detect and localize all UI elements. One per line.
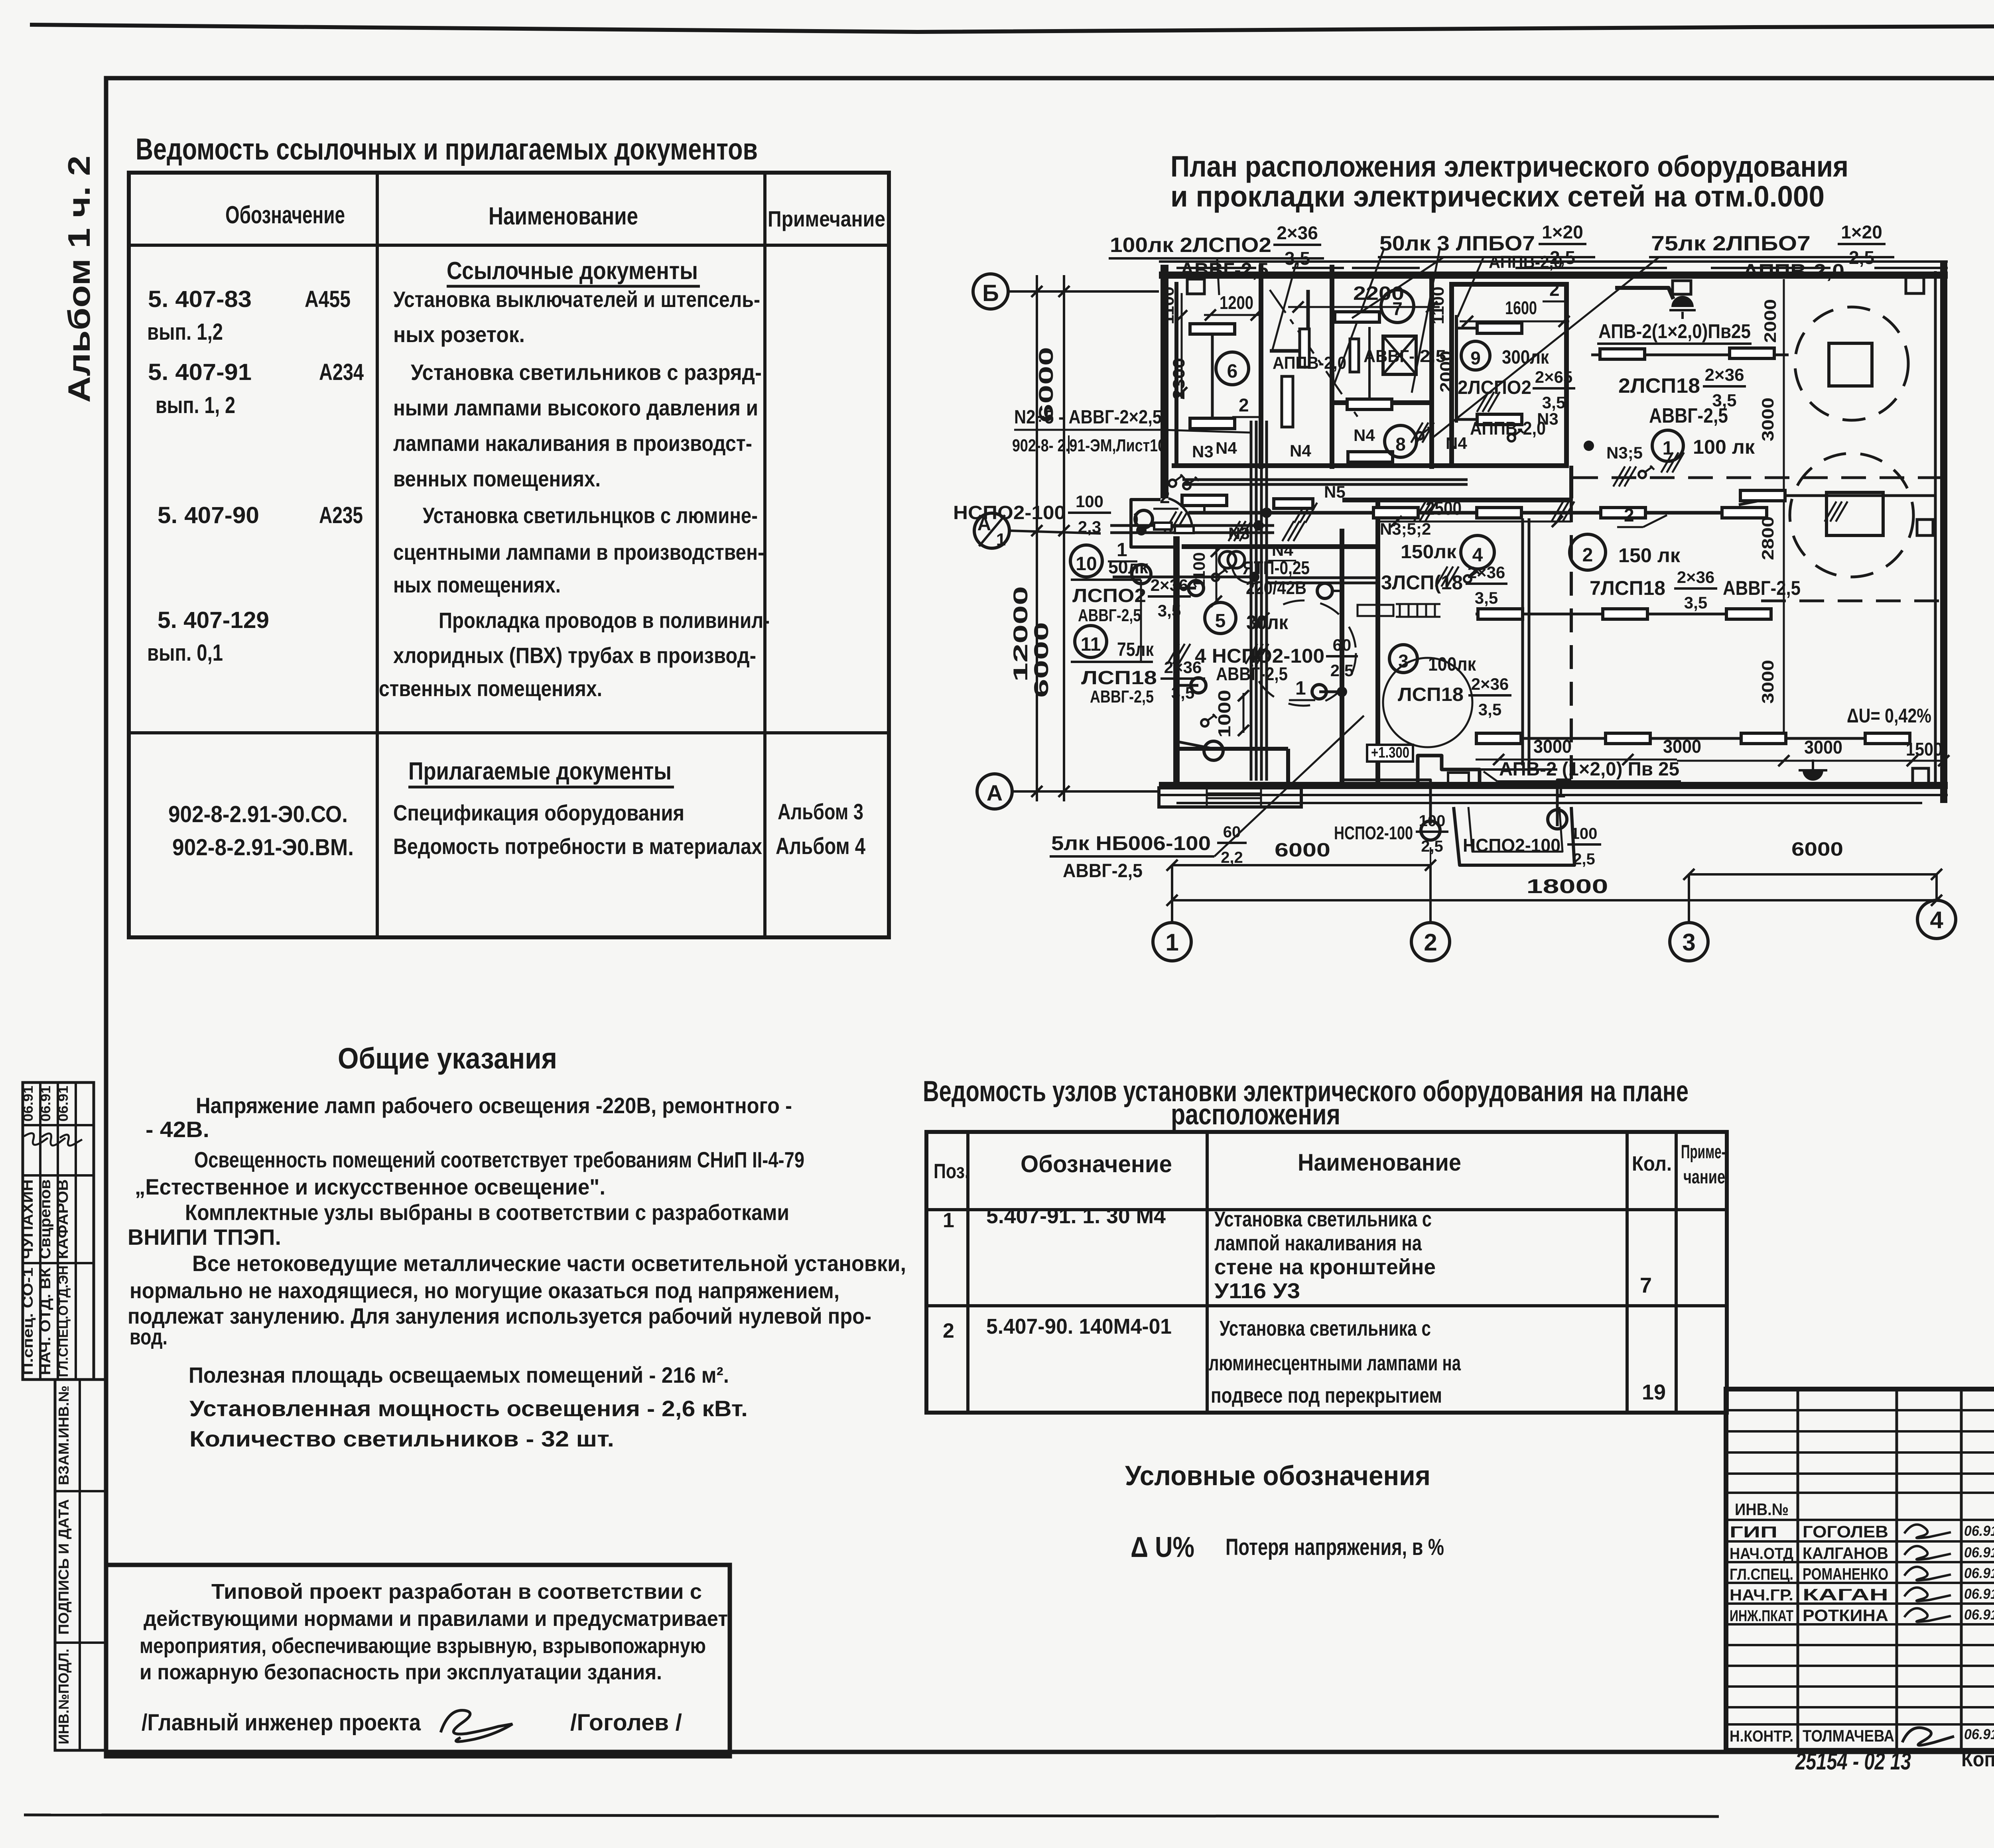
porch at axis 2 (1454, 807, 1574, 865)
svg-text:2,5: 2,5 (1330, 661, 1354, 680)
svg-text:60: 60 (1223, 823, 1241, 841)
svg-text:3000: 3000 (1758, 398, 1777, 441)
svg-text:7: 7 (1640, 1273, 1652, 1297)
svg-text:50лк 3 ЛПБО7: 50лк 3 ЛПБО7 (1379, 232, 1535, 255)
axis circle A1 (974, 513, 1009, 548)
svg-text:лампами накаливания в производ: лампами накаливания в производст- (393, 431, 752, 456)
svg-text:ИНВ.№: ИНВ.№ (1735, 1500, 1789, 1519)
room9 walls (1452, 284, 1566, 466)
room6 dim line vertical (1181, 293, 1183, 399)
building outer wall left (1161, 265, 1168, 498)
svg-text:N3: N3 (1537, 409, 1559, 428)
svg-text:Комплектные узлы выбраны в соо: Комплектные узлы выбраны в соответствии … (185, 1200, 789, 1225)
svg-text:АВВГ-2,5: АВВГ-2,5 (1090, 687, 1154, 707)
svg-text:1100: 1100 (1159, 287, 1177, 325)
svg-text:Установленная мощность освещен: Установленная мощность освещения - 2,6 к… (189, 1396, 748, 1421)
svg-text:2: 2 (1160, 486, 1170, 507)
svg-text:3,5: 3,5 (1684, 593, 1707, 612)
svg-text:вып. 0,1: вып. 0,1 (147, 640, 223, 666)
annex right wall upper (1375, 500, 1380, 785)
svg-text:НАЧ.ОТД: НАЧ.ОТД (1730, 1545, 1793, 1563)
corridor wall y1254 (1342, 498, 1571, 502)
axis line B (1008, 290, 1159, 293)
svg-text:N2÷5 - АВВГ-2×2,5: N2÷5 - АВВГ-2×2,5 (1014, 407, 1162, 428)
svg-text:60: 60 (1333, 636, 1352, 654)
svg-text:2×36: 2×36 (1704, 365, 1744, 385)
entrance mark top right (1671, 296, 1694, 307)
svg-text:нормально не находящиеся, но м: нормально не находящиеся, но могущие ока… (130, 1278, 839, 1303)
svg-text:N4: N4 (1216, 439, 1237, 457)
svg-text:ТОЛМАЧЕВА: ТОЛМАЧЕВА (1803, 1726, 1894, 1745)
vestibule inner walls (1306, 290, 1310, 351)
svg-text:лампой накаливания на: лампой накаливания на (1214, 1231, 1422, 1255)
svg-text:ЛСПО2: ЛСПО2 (1072, 585, 1146, 606)
svg-text:2500: 2500 (1426, 498, 1462, 519)
svg-text:N4: N4 (1290, 441, 1311, 460)
svg-text:N3;5: N3;5 (1606, 443, 1643, 462)
svg-text:902-8- 2.91-ЭМ,Лист10: 902-8- 2.91-ЭМ,Лист10 (1012, 436, 1166, 455)
svg-text:2: 2 (1624, 505, 1634, 525)
standard design statement box (106, 1565, 730, 1756)
svg-text:2,5: 2,5 (1573, 850, 1595, 868)
bottom axis stems (1171, 865, 1173, 923)
svg-text:/Гоголев /: /Гоголев / (570, 1710, 682, 1736)
room9 circle (1461, 341, 1490, 370)
tank 1 square (1829, 343, 1872, 386)
entrance steps band bottom-left (1159, 788, 1301, 807)
svg-text:ных помещениях.: ных помещениях. (393, 572, 561, 597)
svg-text:Альбом 3: Альбом 3 (778, 799, 863, 824)
svg-text:ΔU= 0,42%: ΔU= 0,42% (1847, 705, 1931, 727)
svg-text:ЛСП18: ЛСП18 (1398, 684, 1464, 705)
svg-text:ИНВ.№ПОДЛ.: ИНВ.№ПОДЛ. (55, 1649, 72, 1744)
svg-text:Приме-: Приме- (1681, 1141, 1726, 1163)
small square right of tank2 (1917, 520, 1933, 535)
svg-text:1×20: 1×20 (1841, 222, 1882, 242)
reference documents table grid (129, 173, 889, 937)
svg-text:2: 2 (1582, 545, 1593, 566)
svg-text:2300: 2300 (1169, 358, 1188, 400)
svg-text:3000: 3000 (1804, 737, 1842, 758)
svg-text:ГОГОЛЕВ: ГОГОЛЕВ (1803, 1522, 1888, 1541)
svg-text:АПВ-2 (1×2,0) Пв 25: АПВ-2 (1×2,0) Пв 25 (1499, 759, 1679, 780)
svg-text:18000: 18000 (1527, 875, 1608, 897)
svg-text:902-8-2.91-Э0.СО.: 902-8-2.91-Э0.СО. (168, 801, 348, 827)
junction dots (1584, 441, 1594, 451)
svg-text:ИНЖ.ПКАТ: ИНЖ.ПКАТ (1730, 1607, 1793, 1625)
axis circle A (977, 774, 1012, 809)
svg-text:венных помещениях.: венных помещениях. (393, 466, 601, 491)
svg-text:N4: N4 (1272, 541, 1293, 559)
stair box +1.500 (1358, 605, 1393, 616)
svg-text:1: 1 (943, 1209, 954, 1232)
svg-text:2000: 2000 (1436, 351, 1455, 393)
x-box crossed rectangle (1383, 336, 1416, 374)
axis line A (1012, 790, 1159, 793)
room3 circle (1389, 645, 1417, 673)
room2 circle (1570, 534, 1606, 570)
svg-text:ВЗАМ.ИНВ.№: ВЗАМ.ИНВ.№ (55, 1386, 72, 1485)
svg-text:Кол.: Кол. (1632, 1152, 1672, 1175)
svg-text:сцентными лампами в производст: сцентными лампами в производствен- (393, 539, 764, 565)
svg-text:ЧУПАХИН: ЧУПАХИН (20, 1179, 36, 1259)
svg-text:Установка светильника с: Установка светильника с (1214, 1207, 1432, 1231)
svg-text:Ссылочные документы: Ссылочные документы (447, 257, 698, 285)
svg-text:хлоридных (ПВХ) трубах в произ: хлоридных (ПВХ) трубах в производ- (393, 643, 756, 668)
svg-text:Обозначение: Обозначение (1021, 1151, 1172, 1177)
svg-text:6000: 6000 (1791, 839, 1843, 860)
svg-text:Альбом 4: Альбом 4 (776, 833, 865, 859)
tank circle 1 dashed (1795, 307, 1908, 420)
partition rooms 7-8 (1332, 400, 1432, 405)
svg-text:2: 2 (1239, 395, 1249, 415)
svg-text:вод.: вод. (130, 1324, 167, 1349)
svg-text:Поз.: Поз. (934, 1160, 969, 1183)
svg-text:06.91: 06.91 (1964, 1586, 1994, 1602)
small square room6 corner (1187, 279, 1204, 294)
svg-text:6: 6 (1227, 361, 1238, 382)
dash-dot diagonal (1270, 290, 1358, 417)
svg-text:Прилагаемые документы: Прилагаемые документы (408, 758, 672, 785)
rooms 7-8 right wall (1429, 275, 1434, 469)
svg-text:100лк 2ЛСПО2: 100лк 2ЛСПО2 (1110, 234, 1271, 257)
svg-text:5. 407-129: 5. 407-129 (158, 607, 269, 633)
svg-text:2×36: 2×36 (1468, 563, 1505, 582)
room5 circle (1205, 602, 1236, 634)
dashed line y1507 right (1761, 600, 1944, 602)
svg-text:Б: Б (982, 280, 999, 306)
top right heavy wire (1615, 288, 1673, 299)
svg-text:расположения: расположения (1171, 1098, 1340, 1131)
svg-text:ВНИПИ ТПЭП.: ВНИПИ ТПЭП. (128, 1224, 281, 1250)
svg-text:стене на кронштейне: стене на кронштейне (1214, 1255, 1436, 1279)
window band bottom thin lines (1159, 794, 1948, 796)
svg-text:50лк: 50лк (1108, 557, 1149, 577)
svg-text:АППВ-2,0: АППВ-2,0 (1489, 252, 1562, 272)
svg-text:2: 2 (1549, 279, 1560, 300)
svg-text:КАФАРОВ: КАФАРОВ (55, 1179, 71, 1259)
svg-text:N5: N5 (1324, 482, 1346, 501)
svg-text:4: 4 (1930, 907, 1943, 933)
svg-text:Альбом 1 ч. 2: Альбом 1 ч. 2 (61, 155, 97, 403)
svg-text:3000: 3000 (1758, 660, 1777, 704)
svg-text:АВВГ-2,5: АВВГ-2,5 (1063, 860, 1143, 882)
svg-text:1200: 1200 (1220, 292, 1253, 313)
svg-text:6000: 6000 (1030, 622, 1052, 698)
door arc at left wall (1168, 498, 1192, 531)
lamp row wire C (1476, 613, 1771, 616)
svg-text:12000: 12000 (1009, 586, 1032, 682)
svg-text:Количество светильников - 32 ш: Количество светильников - 32 шт. (189, 1426, 614, 1451)
svg-text:06.91: 06.91 (1964, 1606, 1994, 1623)
lamp row wire B corridor (1188, 511, 1739, 515)
svg-text:А235: А235 (319, 502, 363, 528)
svg-text:10: 10 (1076, 553, 1097, 575)
annex wall x3365 (1340, 529, 1344, 788)
building outer wall top (1159, 272, 1948, 279)
svg-text:Δ U%: Δ U% (1131, 1531, 1194, 1563)
svg-text:НАЧ.ГР.: НАЧ.ГР. (1730, 1586, 1793, 1604)
svg-text:Все нетоковедущие металлически: Все нетоковедущие металлические части ос… (192, 1251, 906, 1276)
svg-text:3,5: 3,5 (1478, 700, 1501, 719)
svg-text:КАЛГАНОВ: КАЛГАНОВ (1803, 1544, 1888, 1563)
svg-text:1: 1 (996, 530, 1006, 549)
room10 circle (1070, 545, 1102, 577)
corridor dashed y1198 (1573, 476, 1944, 479)
svg-text:/Главный инженер проекта: /Главный инженер проекта (142, 1710, 421, 1736)
svg-text:5. 407-83: 5. 407-83 (148, 286, 252, 312)
svg-text:2: 2 (1424, 929, 1437, 956)
corridor wire bundle under rooms (1182, 478, 1468, 481)
svg-text:„Естественное и искусственное: „Естественное и искусственное освещение"… (135, 1174, 605, 1199)
svg-text:ЛСП18: ЛСП18 (1081, 667, 1157, 689)
svg-text:5. 407-90: 5. 407-90 (158, 502, 259, 528)
mark +1.300 (1367, 745, 1413, 762)
leader diagonals from 50lk label (1272, 263, 1296, 351)
svg-text:100: 100 (1419, 812, 1446, 830)
left lamp with stem (1203, 506, 1206, 513)
svg-text:Установка светильника с: Установка светильника с (1220, 1317, 1431, 1340)
svg-text:Потеря напряжения, в %: Потеря напряжения, в % (1226, 1534, 1444, 1560)
svg-text:75лк 2ЛПБО7: 75лк 2ЛПБО7 (1651, 232, 1811, 255)
svg-text:Типовой проект разработан в со: Типовой проект разработан в соответствии… (211, 1580, 702, 1604)
svg-text:25154 - 02 13: 25154 - 02 13 (1795, 1748, 1911, 1775)
lamp row wire A (1591, 354, 1789, 356)
svg-text:Условные обозначения: Условные обозначения (1125, 1460, 1430, 1491)
window band top thin lines (1159, 260, 1948, 263)
room6 circle (1216, 352, 1249, 385)
svg-text:150лк: 150лк (1401, 541, 1457, 563)
svg-text:АВВГ-: АВВГ- (1363, 346, 1415, 366)
corridor wire bundle horizontal upper (1110, 524, 1274, 527)
svg-text:2×36: 2×36 (1677, 568, 1715, 586)
room8 circle (1385, 425, 1417, 457)
svg-text:2,3: 2,3 (1078, 518, 1101, 536)
svg-text:РОМАНЕНКО: РОМАНЕНКО (1803, 1565, 1888, 1583)
svg-text:2,5: 2,5 (1421, 838, 1443, 855)
svg-text:11: 11 (1081, 634, 1101, 655)
tank circle 2 dashed (1790, 453, 1913, 577)
svg-text:Установка светильнцков с люмин: Установка светильнцков с люмине- (423, 503, 758, 528)
svg-text:3,5: 3,5 (1158, 601, 1181, 620)
signature squiggle (441, 1710, 512, 1742)
svg-text:1: 1 (1165, 929, 1178, 956)
svg-text:1×20: 1×20 (1542, 222, 1583, 242)
svg-text:1000: 1000 (1215, 690, 1234, 738)
svg-text:150 лк: 150 лк (1618, 544, 1681, 567)
svg-text:100 лк: 100 лк (1693, 436, 1755, 458)
svg-text:220/42В: 220/42В (1246, 577, 1306, 598)
svg-text:подлежат занулению. Для зануле: подлежат занулению. Для зануления исполь… (128, 1303, 871, 1328)
svg-text:2200: 2200 (1353, 283, 1404, 304)
svg-text:5: 5 (1215, 610, 1226, 632)
title block outer frame (1726, 1389, 1994, 1750)
svg-text:Спецификация оборудования: Спецификация оборудования (393, 800, 684, 825)
svg-text:АПВ-2(1×2,0)Пв25: АПВ-2(1×2,0)Пв25 (1598, 320, 1751, 342)
svg-text:А455: А455 (305, 286, 351, 312)
svg-text:6000: 6000 (1275, 840, 1330, 861)
svg-text:действующими нормами и правила: действующими нормами и правилами и преду… (144, 1607, 728, 1631)
svg-text:2,2: 2,2 (1221, 849, 1243, 866)
svg-text:06.91: 06.91 (38, 1086, 53, 1122)
svg-text:Наименование: Наименование (489, 203, 638, 230)
svg-text:мероприятия, обеспечивающие вз: мероприятия, обеспечивающие взрывную, вз… (140, 1634, 706, 1658)
incandescent lamp circles (1132, 565, 1151, 584)
room7 circle (1381, 290, 1414, 323)
room6 lamp wire (1211, 329, 1214, 423)
left switch-line to riser (1113, 576, 1251, 579)
svg-text:КАГАН: КАГАН (1803, 1585, 1888, 1604)
svg-text:06.91: 06.91 (1964, 1726, 1994, 1742)
svg-text:2: 2 (943, 1319, 954, 1342)
svg-text:вып. 1, 2: вып. 1, 2 (156, 392, 235, 418)
room6 inner left wall (1174, 282, 1178, 466)
hatch marks on wires (1164, 512, 1176, 531)
svg-text:ных розеток.: ных розеток. (393, 322, 525, 347)
svg-text:ными лампами высокого давления: ными лампами высокого давления и (393, 395, 758, 420)
svg-text:П.спец. СО-1: П.спец. СО-1 (20, 1267, 36, 1375)
zone line x4473 thin (1783, 279, 1785, 736)
svg-text:1100: 1100 (1429, 287, 1447, 325)
stamp signatures squiggles (24, 1133, 48, 1145)
svg-text:1600: 1600 (1505, 297, 1537, 318)
svg-text:N4: N4 (1354, 426, 1375, 445)
svg-text:3ЛСП(18: 3ЛСП(18 (1381, 571, 1463, 594)
svg-text:- 42В.: - 42В. (146, 1117, 209, 1142)
room1 circle (1652, 430, 1683, 461)
svg-text:N4: N4 (1446, 434, 1467, 453)
svg-text:ПОДПИСЬ И ДАТА: ПОДПИСЬ И ДАТА (55, 1499, 72, 1635)
svg-text:3,5: 3,5 (1171, 683, 1194, 702)
svg-text:2×36: 2×36 (1277, 222, 1318, 243)
svg-text:Полезная площадь освещаемых по: Полезная площадь освещаемых помещений - … (189, 1362, 729, 1387)
svg-text:вып. 1,2: вып. 1,2 (147, 319, 223, 345)
tank 2 square (1827, 492, 1883, 535)
svg-text:Прокладка проводов в поливинил: Прокладка проводов в поливинил- (439, 608, 770, 633)
svg-text:2800: 2800 (1758, 516, 1777, 560)
svg-text:люминесцентными лампами на: люминесцентными лампами на (1209, 1351, 1461, 1375)
svg-text:+1.300: +1.300 (1371, 744, 1409, 761)
svg-text:2000: 2000 (1761, 299, 1779, 343)
page bottom edge shadow (24, 1815, 1719, 1817)
svg-text:АППВ-2,0: АППВ-2,0 (1743, 260, 1844, 282)
axis circle B (973, 274, 1008, 309)
svg-text:и пожарную безопасность при эк: и пожарную безопасность при эксплуатации… (140, 1660, 662, 1684)
svg-text:ГЛ.СПЕЦ.: ГЛ.СПЕЦ. (1730, 1566, 1793, 1583)
svg-text:100: 100 (1571, 825, 1598, 842)
svg-text:9: 9 (1470, 348, 1481, 368)
svg-text:2ЛСП18: 2ЛСП18 (1618, 374, 1700, 398)
svg-text:1500: 1500 (1906, 739, 1943, 760)
wire across rooms 7-8 (1368, 327, 1371, 404)
svg-text:1100: 1100 (1190, 552, 1208, 588)
svg-text:и прокладки электрических сет: и прокладки электрических сетей на отм.0… (1170, 180, 1825, 213)
main riser bundle vertical (1250, 421, 1253, 781)
svg-text:1: 1 (1295, 678, 1306, 699)
room4 big dashed circle (1251, 600, 1356, 706)
room5 right lamp circle (1317, 583, 1332, 598)
wall lamp left of entrance (1135, 510, 1153, 528)
svg-text:Напряжение ламп рабочего освещ: Напряжение ламп рабочего освещения -220В… (196, 1093, 792, 1118)
svg-text:У116 У3: У116 У3 (1214, 1279, 1300, 1303)
svg-text:2×36: 2×36 (1471, 675, 1509, 693)
svg-text:Ведомость потребности в матери: Ведомость потребности в материалах (393, 834, 762, 859)
svg-text:АВВГ-2,5: АВВГ-2,5 (1180, 259, 1269, 281)
svg-text:чание: чание (1683, 1167, 1725, 1188)
svg-text:3: 3 (1682, 929, 1695, 956)
partition vestibule right (1330, 265, 1334, 469)
bottom dim line 1-2 (1172, 864, 1430, 866)
svg-text:3,5: 3,5 (1542, 393, 1565, 412)
svg-text:2ЛСПО2: 2ЛСПО2 (1458, 377, 1531, 398)
vertical lamp bars vestibule (1282, 376, 1293, 427)
right wall inner line (1934, 271, 1937, 783)
svg-text:3,5: 3,5 (1475, 588, 1498, 607)
nodes table grid (926, 1132, 1727, 1413)
svg-text:ГЛ.СПЕЦ.ОТД.ЭН: ГЛ.СПЕЦ.ОТД.ЭН (56, 1265, 71, 1377)
svg-text:300лк: 300лк (1502, 347, 1549, 368)
room5 wiring (1177, 588, 1198, 685)
svg-text:5лк НБ006-100: 5лк НБ006-100 (1051, 832, 1211, 854)
axis line A1 (1009, 531, 1101, 533)
left entrance canopy (1131, 500, 1179, 547)
svg-text:Наименование: Наименование (1298, 1149, 1461, 1176)
partition room6 right (1259, 265, 1263, 469)
bundle to room3 horizontal (1267, 577, 1377, 579)
svg-text:ственных помещениях.: ственных помещениях. (379, 676, 602, 701)
svg-text:5. 407-91: 5. 407-91 (148, 359, 252, 385)
svg-text:7ЛСП18: 7ЛСП18 (1590, 577, 1665, 599)
left margin lower strip (55, 1380, 106, 1750)
svg-text:НСПО2-100: НСПО2-100 (953, 502, 1066, 524)
room5 inner walls (1176, 747, 1288, 751)
small square bottom right (1913, 768, 1929, 784)
title block left grid (1726, 1389, 1994, 1750)
svg-text:АВВГ-2,5: АВВГ-2,5 (1649, 404, 1728, 427)
svg-text:902-8-2.91-Э0.ВМ.: 902-8-2.91-Э0.ВМ. (172, 834, 354, 860)
platform near room3 (1418, 756, 1480, 785)
svg-text:19: 19 (1642, 1380, 1666, 1404)
svg-text:5.407-91. 1. 30 М4: 5.407-91. 1. 30 М4 (986, 1204, 1166, 1228)
svg-text:100: 100 (1076, 492, 1103, 511)
entrance mark bottom (1803, 770, 1823, 781)
building outer wall right (1940, 262, 1947, 803)
svg-text:06.91: 06.91 (1964, 1544, 1994, 1561)
svg-text:2×65: 2×65 (1535, 368, 1573, 386)
small square top right (1906, 277, 1924, 293)
bottom dim line 3-4 (1689, 873, 1937, 876)
svg-text:АВВГ-2,5: АВВГ-2,5 (1723, 577, 1801, 599)
svg-text:НСПО2-100: НСПО2-100 (1334, 823, 1413, 843)
svg-text:8: 8 (1395, 434, 1406, 455)
svg-text:06.91: 06.91 (21, 1086, 36, 1122)
building outer wall bottom (1159, 782, 1948, 789)
svg-text:3000: 3000 (1533, 736, 1572, 757)
right zone divider dashed x3940 (1570, 498, 1573, 785)
svg-text:АППВ-2,0: АППВ-2,0 (1273, 353, 1346, 373)
svg-text:75лк: 75лк (1117, 639, 1154, 660)
lamp fixtures horizontal bars (1600, 349, 1645, 359)
svg-text:ГИП: ГИП (1730, 1523, 1777, 1541)
svg-text:Установка светильников с разря: Установка светильников с разряд- (411, 360, 762, 385)
svg-text:АППВ-2,0: АППВ-2,0 (1470, 418, 1546, 439)
page top edge shadow (30, 25, 1994, 32)
svg-text:Примечание: Примечание (768, 206, 885, 231)
svg-text:ЯТП-0,25: ЯТП-0,25 (1243, 557, 1310, 578)
room4 riser pair to porch (1521, 518, 1524, 766)
lamp row wire D (1476, 737, 1910, 740)
yatp double circle (1219, 551, 1236, 568)
